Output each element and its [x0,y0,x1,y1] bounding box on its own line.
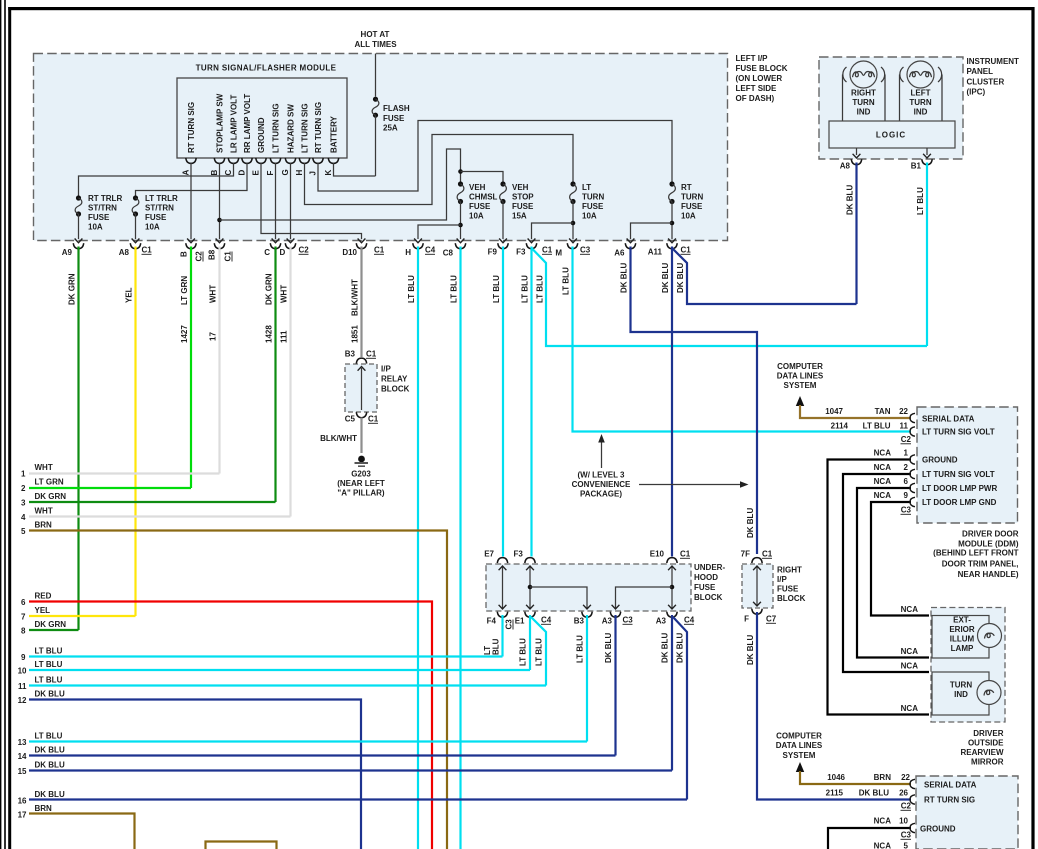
row 4 wire WHT [21,507,290,523]
connector B1 IPC [911,159,932,170]
svg-text:TURN: TURN [950,681,972,690]
svg-text:BLK/WHT: BLK/WHT [351,279,360,316]
svg-text:STOPLAMP SW: STOPLAMP SW [216,93,225,153]
svg-text:MODULE (DDM): MODULE (DDM) [958,539,1019,548]
svg-text:LT BLU: LT BLU [536,275,545,303]
row 7 wire YEL [21,606,135,622]
svg-text:A11: A11 [648,248,663,257]
svg-text:NCA: NCA [901,704,919,713]
junction CHMSL/STOP feed [458,169,463,174]
svg-text:NCA: NCA [874,463,892,472]
svg-text:DATA LINES: DATA LINES [776,741,823,750]
svg-text:TAN: TAN [875,407,891,416]
connector F4 C3 underhood bottom [487,612,514,630]
connector B3 C1 relay top [345,350,377,364]
row 11 wire LT BLU [18,676,546,692]
svg-text:DK BLU: DK BLU [746,635,755,665]
label NCA 5 [874,842,909,849]
connector A3 C3 underhood bottom [602,612,634,626]
svg-text:2115: 2115 [826,789,844,798]
svg-text:(BEHIND LEFT FRONT: (BEHIND LEFT FRONT [933,549,1018,558]
svg-text:LT BLU: LT BLU [576,635,585,663]
driver outside rearview mirror block (dashed box) [931,608,1005,723]
svg-text:9: 9 [21,653,26,662]
svg-text:DK BLU: DK BLU [846,185,855,215]
page border: right frame [1031,7,1034,849]
svg-text:C5: C5 [345,415,356,424]
svg-text:DK BLU: DK BLU [35,746,65,755]
svg-text:BLK/WHT: BLK/WHT [320,434,357,443]
connector D10 C1 [342,243,384,257]
svg-text:I/P: I/P [777,575,787,584]
svg-text:C3: C3 [901,506,912,515]
wire module D to LT TRLR fuse [136,163,248,196]
wire BLK/WHT relay to ground [360,418,362,454]
svg-text:TURN SIGNAL/FLASHER MODULE: TURN SIGNAL/FLASHER MODULE [196,64,337,73]
wire WHT 17 B8 down [218,247,220,474]
svg-text:C3: C3 [623,616,634,625]
svg-text:TURN: TURN [681,193,703,202]
svg-text:C4: C4 [425,246,436,255]
svg-text:WHT: WHT [209,285,218,303]
svg-text:14: 14 [18,752,27,761]
label: I/P RELAY BLOCK [381,365,410,394]
IPC pin B1 wire [926,148,928,155]
svg-text:15: 15 [18,767,27,776]
svg-text:C1: C1 [680,550,691,559]
svg-text:FUSE: FUSE [145,213,167,222]
wire NCA to DDM pin 1 ground [828,449,930,715]
svg-text:SYSTEM: SYSTEM [783,751,816,760]
svg-text:LT GRN: LT GRN [180,276,189,305]
svg-text:F4: F4 [487,617,497,626]
svg-text:LT BLU: LT BLU [562,267,571,295]
svg-text:LT TURN SIG VOLT: LT TURN SIG VOLT [922,470,995,479]
wire DK BLU A3 to row 14 [614,615,616,756]
svg-text:(NEAR LEFT: (NEAR LEFT [337,479,385,488]
junction on stoplamp wire [217,218,222,223]
svg-text:26: 26 [899,789,908,798]
wire LT BLU F4 to row 9 [501,615,503,657]
wire RT TURN fuse to connectors A6 and A11 [671,202,673,240]
serial box connector pin 26 [910,795,915,804]
svg-text:10A: 10A [469,212,484,221]
svg-text:DK BLU: DK BLU [35,690,65,699]
svg-text:LT BLU: LT BLU [35,660,63,669]
connector H C4 [405,243,436,257]
svg-text:F3: F3 [516,248,526,257]
wire LT BLU M down to DDM pin 11 [573,247,912,432]
connector F C7 right block bottom [744,609,777,624]
svg-text:G: G [281,169,290,175]
svg-text:DK BLU: DK BLU [746,508,755,538]
svg-text:LR LAMP VOLT: LR LAMP VOLT [230,95,239,153]
svg-text:2: 2 [904,463,909,472]
module pin cups A-K at box bottom [186,158,196,164]
svg-text:LT DOOR LMP PWR: LT DOOR LMP PWR [922,484,997,493]
svg-text:I/P: I/P [381,365,391,374]
row 9 wire LT BLU [21,647,502,663]
svg-text:C2: C2 [195,251,204,262]
svg-text:10A: 10A [582,212,597,221]
svg-text:H: H [295,170,304,176]
svg-text:UNDER-: UNDER- [694,563,725,572]
svg-text:TURN: TURN [852,98,874,107]
row 8 wire DK GRN [21,620,78,636]
svg-text:1428: 1428 [265,325,274,343]
svg-text:LT BLU: LT BLU [521,275,530,303]
connector A8 IPC [840,159,862,170]
svg-text:D: D [238,170,247,176]
underhood internal wire E7-F4 [502,567,504,608]
svg-text:10A: 10A [88,223,103,232]
svg-text:B3: B3 [345,350,356,359]
wire LT TURN fuse to connectors F3 and M [572,202,574,240]
svg-text:C1: C1 [368,415,379,424]
svg-text:TURN: TURN [909,98,931,107]
connector D C2 [280,243,310,257]
svg-text:A8: A8 [119,248,130,257]
svg-text:NEAR HANDLE): NEAR HANDLE) [958,570,1019,579]
svg-text:111: 111 [280,330,289,343]
wire module F to connector C [275,163,277,239]
wire DK BLU A11 branch to IPC A8 [672,248,857,304]
svg-text:12: 12 [18,696,27,705]
page border: main left frame [8,7,11,849]
svg-text:DK BLU: DK BLU [676,263,685,293]
svg-text:DK BLU: DK BLU [35,790,65,799]
svg-text:DK BLU: DK BLU [620,263,629,293]
wire DK BLU A6 to right I/P fuse block 7F [631,247,758,555]
svg-text:6: 6 [21,598,26,607]
svg-text:B: B [210,170,219,176]
note: W/ LEVEL 3 CONVENIENCE PACKAGE [572,434,749,499]
row 13 wire LT BLU [18,732,587,748]
wire LT GRN 1427 B down [190,247,192,489]
passenger door module block bottom right (dashed box) [916,776,1018,849]
svg-text:NCA: NCA [901,662,919,671]
wire LT BLU IPC B1 down [926,163,928,347]
connector E10 C1 underhood top [650,550,691,564]
svg-text:10A: 10A [145,223,160,232]
svg-text:RR LAMP VOLT: RR LAMP VOLT [243,94,252,153]
svg-text:LEFT: LEFT [911,89,931,98]
page border: outer thin left line [0,0,1,849]
svg-text:DK BLU: DK BLU [661,633,670,663]
svg-text:C1: C1 [374,246,385,255]
svg-text:1851: 1851 [351,325,360,343]
svg-text:LAMP: LAMP [951,644,974,653]
svg-text:10: 10 [899,817,908,826]
svg-text:1427: 1427 [180,325,189,343]
svg-text:DK BLU: DK BLU [604,633,613,663]
wire RT TRLR fuse to connector A9 [78,214,80,239]
wire LT BLU B3 to row 13 [586,615,588,742]
wire module A to connector B [190,163,192,239]
wire LT BLU F3 down to underhood F3 [530,247,532,557]
svg-text:RED: RED [35,592,52,601]
VEH STOP fuse 15A [500,181,535,220]
svg-text:RIGHT: RIGHT [851,89,876,98]
wire STOP fuse to connector F9 [502,202,504,240]
svg-text:2: 2 [21,484,26,493]
svg-text:1047: 1047 [825,407,843,416]
DDM connector label C3 [901,506,912,515]
svg-text:DK BLU: DK BLU [859,789,889,798]
wire NCA to serial box pin 10 ground [828,817,911,849]
flash fuse 25A [372,97,410,133]
svg-text:C8: C8 [443,249,454,258]
svg-text:NCA: NCA [874,817,892,826]
svg-text:5: 5 [904,842,909,849]
svg-text:C3: C3 [580,246,591,255]
LT TURN fuse 10A [570,181,605,220]
svg-text:K: K [324,170,333,176]
svg-text:10A: 10A [681,212,696,221]
connector A3 C4 underhood bottom [656,612,695,626]
svg-text:RT: RT [681,183,692,192]
connector A6 [614,243,635,257]
svg-text:GROUND: GROUND [257,117,266,153]
underhood fuse block (dashed box) [486,564,691,611]
svg-text:COMPUTER: COMPUTER [777,362,823,371]
svg-text:LT GRN: LT GRN [35,478,64,487]
svg-text:1: 1 [21,470,26,479]
connector E7 underhood top [484,550,507,564]
svg-text:A8: A8 [840,162,851,171]
svg-text:IND: IND [954,690,968,699]
DDM connector pin 11 [910,427,915,436]
svg-text:FUSE: FUSE [777,585,799,594]
svg-text:VEH: VEH [469,183,486,192]
connector F3 C1 [516,243,553,256]
label: RIGHT I/P FUSE BLOCK [777,566,806,604]
svg-text:H: H [405,248,411,257]
connector 7F C1 right block top [741,550,773,564]
svg-text:BRN: BRN [35,804,53,813]
connector C [264,243,280,257]
row 6 wire RED [21,592,432,849]
svg-text:DK BLU: DK BLU [661,263,670,293]
wire NCA to DDM pin 9 [871,491,929,616]
underhood internal wire E10-A3 [671,567,673,608]
svg-text:B1: B1 [911,162,922,171]
svg-text:25A: 25A [383,124,398,133]
wire LT BLU F3 branch to IPC B1 [532,248,928,346]
svg-text:ST/TRN: ST/TRN [88,204,117,213]
relay block internal wire [361,368,363,410]
connector B3 underhood bottom [574,612,592,626]
svg-text:C3: C3 [901,831,912,840]
svg-text:WHT: WHT [280,285,289,303]
svg-text:G203: G203 [351,470,371,479]
svg-text:RT TURN SIG: RT TURN SIG [924,796,975,805]
svg-text:LT BLU: LT BLU [35,647,63,656]
svg-text:SERIAL DATA: SERIAL DATA [924,781,977,790]
svg-text:A3: A3 [656,617,667,626]
svg-text:10: 10 [18,667,27,676]
svg-text:REARVIEW: REARVIEW [961,748,1004,757]
connector C8 [443,243,466,257]
wire module J to RT TURN fuse [318,121,672,192]
svg-text:LT TURN SIG VOLT: LT TURN SIG VOLT [922,428,995,437]
svg-text:7: 7 [21,613,26,622]
svg-text:11: 11 [18,682,27,691]
svg-text:15A: 15A [512,212,527,221]
svg-text:WHT: WHT [35,463,53,472]
svg-text:LT BLU: LT BLU [35,676,63,685]
label: DRIVER OUTSIDE REARVIEW MIRROR [961,729,1005,767]
IPC right turn indicator lamp [843,61,886,121]
svg-text:FUSE: FUSE [88,213,110,222]
wire stoplamp branch to CHMSL/STOP fuses [220,149,461,220]
row 15 wire DK BLU [18,761,672,777]
row 1 wire WHT [21,463,219,479]
row 16 wire DK BLU [18,790,687,806]
svg-text:C1: C1 [142,246,153,255]
svg-text:FUSE BLOCK: FUSE BLOCK [736,64,788,73]
wire LT BLU F9 down to underhood E7 [502,247,504,557]
wire module K to flash fuse [334,163,376,176]
wire CHMSL fuse to connectors H and C8 [460,202,462,240]
svg-text:LT TURN SIG: LT TURN SIG [301,103,310,153]
svg-text:STOP: STOP [512,193,534,202]
driver door module block (dashed box) [917,407,1018,523]
svg-text:C4: C4 [541,616,552,625]
label: INSTRUMENT PANEL CLUSTER (IPC) [967,57,1020,97]
connector C5 C1 relay bottom [345,412,379,423]
svg-text:DOOR TRIM PANEL,: DOOR TRIM PANEL, [942,559,1019,568]
svg-text:BATTERY: BATTERY [330,115,339,153]
turn signal/flasher module box [177,78,347,158]
connector B8 C1 [208,243,233,261]
svg-text:COMPUTER: COMPUTER [776,732,822,741]
connector M C3 [555,243,590,257]
wire battery feed to flash fuse [375,54,377,97]
svg-text:DK GRN: DK GRN [68,273,77,305]
DDM connector pin 22 [910,413,915,422]
connector B C2 [180,243,204,261]
svg-text:DK GRN: DK GRN [265,273,274,305]
svg-text:GROUND: GROUND [920,825,956,834]
svg-text:7F: 7F [741,550,750,559]
row 17 wire BRN [18,804,135,849]
svg-text:HOOD: HOOD [694,573,718,582]
svg-text:INSTRUMENT: INSTRUMENT [967,57,1020,66]
svg-text:(ON LOWER: (ON LOWER [736,74,783,83]
svg-text:5: 5 [21,527,26,536]
svg-text:B: B [180,251,189,257]
svg-text:ILLUM: ILLUM [950,635,975,644]
LT TRLR ST/TRN fuse 10A [132,194,178,232]
connector F3 underhood top [514,550,536,564]
svg-text:LT BLU: LT BLU [519,638,528,666]
connector F9 [488,243,509,256]
svg-text:OF DASH): OF DASH) [736,94,775,103]
svg-text:SYSTEM: SYSTEM [784,381,817,390]
label: UNDER-HOOD FUSE BLOCK [694,563,725,602]
svg-text:"A" PILLAR): "A" PILLAR) [337,489,384,498]
wire LT BLU E1 branch to row 11 [531,617,546,686]
connector E1 C4 underhood bottom [515,612,552,626]
svg-text:C2: C2 [299,246,310,255]
underhood internal junction to A3 [670,585,675,590]
wire DK GRN 1428 C down [274,247,276,503]
svg-text:RIGHT: RIGHT [777,566,802,575]
svg-text:F: F [744,615,749,624]
svg-text:LT BLU: LT BLU [407,275,416,303]
svg-text:DATA LINES: DATA LINES [777,372,824,381]
svg-text:LT BLU: LT BLU [863,422,891,431]
turn ind lamp box [932,672,1001,715]
svg-text:E7: E7 [484,550,494,559]
svg-text:CONVENIENCE: CONVENIENCE [572,480,631,489]
svg-text:NCA: NCA [874,449,892,458]
svg-text:FUSE: FUSE [694,583,716,592]
wire DK GRN A9 down [77,247,79,631]
underhood internal wire F3-E1 [529,567,531,608]
svg-text:HOT AT: HOT AT [361,30,390,39]
svg-text:OUTSIDE: OUTSIDE [968,739,1004,748]
svg-text:VEH: VEH [512,183,529,192]
svg-text:C2: C2 [901,802,912,811]
svg-text:LT BLU: LT BLU [450,275,459,303]
IPC logic box [829,121,955,148]
VEH CHMSL fuse 10A [457,181,497,220]
svg-text:FUSE: FUSE [383,114,405,123]
connector A11 C1 [648,243,692,256]
note: COMPUTER DATA LINES SYSTEM (lower) [776,732,823,760]
svg-text:22: 22 [899,407,908,416]
svg-text:LT: LT [582,183,591,192]
svg-text:NCA: NCA [901,605,919,614]
svg-text:C2: C2 [901,435,912,444]
svg-text:C1: C1 [762,550,773,559]
svg-text:E10: E10 [650,550,665,559]
svg-text:BRN: BRN [35,521,53,530]
svg-text:DK GRN: DK GRN [35,492,67,501]
svg-text:ERIOR: ERIOR [949,625,975,634]
svg-text:C4: C4 [684,616,695,625]
DDM connector label C2 [901,435,912,444]
svg-text:11: 11 [900,422,909,431]
page border: top frame [8,7,1033,10]
svg-text:BRN: BRN [874,773,892,782]
svg-text:LT BLU: LT BLU [492,275,501,303]
wire branch to VEH STOP fuse top [461,172,504,182]
wire LT TRLR fuse to connector A8 [135,214,137,239]
svg-text:B8: B8 [208,249,217,260]
wire module E to connector D10 [261,163,362,239]
svg-text:16: 16 [18,797,27,806]
left I/P fuse block (dashed box) [34,54,728,241]
svg-text:BLOCK: BLOCK [694,593,723,602]
svg-text:ALL TIMES: ALL TIMES [354,40,397,49]
wire module C to RT TRLR fuse [79,163,234,196]
svg-text:NCA: NCA [874,477,892,486]
svg-text:C: C [264,248,270,257]
svg-text:C: C [224,170,233,176]
svg-text:E1: E1 [515,617,525,626]
wire LT BLU H down to page bottom [417,247,419,849]
wire DK BLU A3 to row 15 [671,615,673,771]
svg-text:F3: F3 [514,550,524,559]
svg-text:RT TRLR: RT TRLR [88,194,122,203]
svg-text:8: 8 [21,627,26,636]
svg-text:LT TRLR: LT TRLR [145,194,178,203]
svg-text:D: D [280,248,286,257]
svg-text:NCA: NCA [874,842,892,849]
